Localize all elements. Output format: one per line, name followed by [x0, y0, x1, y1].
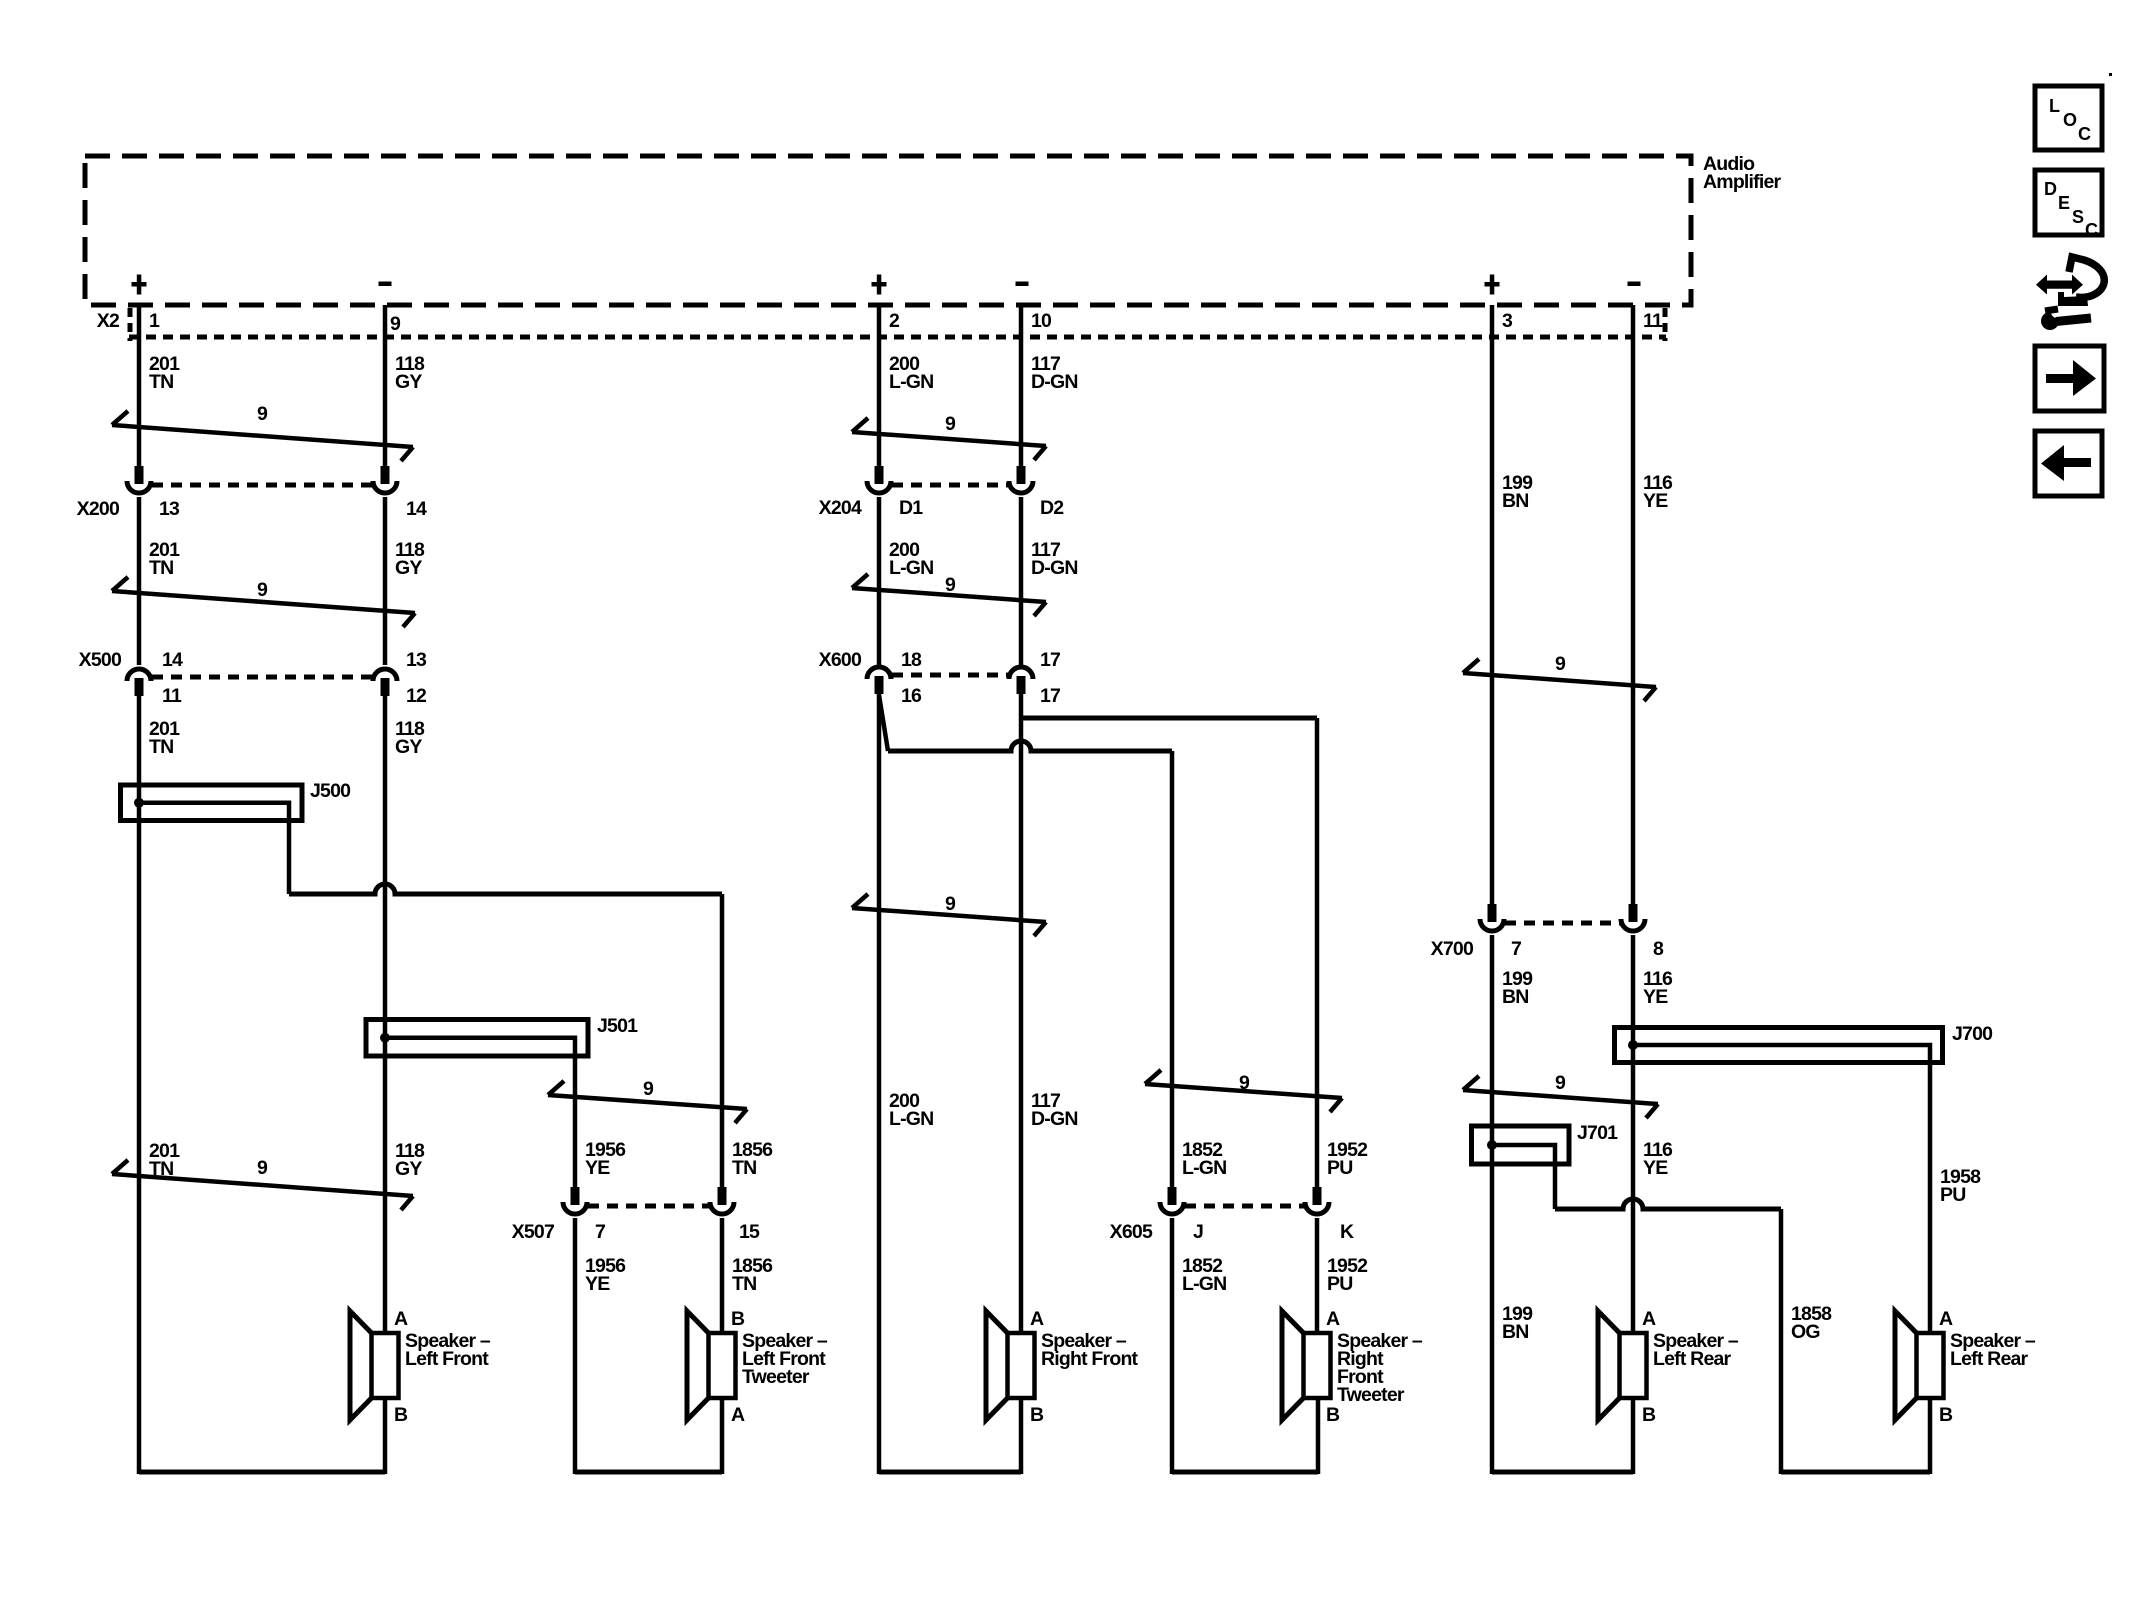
- svg-text:9: 9: [1555, 653, 1566, 675]
- svg-text:L-GN: L-GN: [889, 371, 933, 393]
- svg-text:15: 15: [739, 1221, 760, 1243]
- harness crossing arrow 9 (c1 upper): [112, 425, 413, 447]
- right-front speaker bottom loop wire: [879, 1470, 1021, 1475]
- double arrow of service icon: [2036, 275, 2083, 295]
- svg-text:L-GN: L-GN: [1182, 1273, 1226, 1295]
- wire 199 BN from X700 to J701 and speaker loop: [1490, 935, 1495, 1474]
- connector X204 terminal D2: [1017, 466, 1026, 484]
- svg-text:A: A: [1326, 1308, 1340, 1330]
- connector X600 dashed link: [892, 673, 1008, 678]
- svg-text:1: 1: [149, 310, 160, 332]
- svg-text:K: K: [1340, 1221, 1354, 1243]
- svg-text:X200: X200: [77, 498, 120, 520]
- svg-text:B: B: [394, 1404, 408, 1426]
- splice J500: [121, 785, 303, 821]
- svg-text:D-GN: D-GN: [1031, 557, 1078, 579]
- svg-text:B: B: [1326, 1404, 1340, 1426]
- connector X500 dashed link: [152, 675, 372, 680]
- svg-text:YE: YE: [1643, 490, 1668, 512]
- wire 199 BN from X2 pin3 to X700 pin7: [1490, 305, 1495, 905]
- connector X605 dashed link: [1185, 1204, 1304, 1209]
- forward arrow icon box: [2035, 346, 2104, 411]
- svg-text:2: 2: [889, 310, 900, 332]
- vehicle outline of service icon: [2069, 257, 2104, 298]
- plus terminal at x=139: [137, 275, 142, 295]
- connector X500 terminal 13/12: [373, 669, 397, 681]
- minus terminal at x=1022: [1016, 282, 1029, 287]
- back arrow icon box: [2035, 431, 2102, 496]
- wire 1852 L-GN from X605 to tweeter loop: [1170, 1218, 1175, 1474]
- svg-text:9: 9: [257, 403, 268, 425]
- svg-text:X204: X204: [819, 497, 862, 519]
- svg-text:TN: TN: [732, 1273, 756, 1295]
- left-rear speaker bottom loop wire: [1492, 1470, 1633, 1475]
- wire 200 L-GN from X2 pin2 to X204 pinD1: [877, 305, 882, 467]
- svg-text:L-GN: L-GN: [889, 557, 933, 579]
- wire 1856 TN vertical down to X507 pin15: [720, 894, 725, 1188]
- svg-text:Tweeter: Tweeter: [742, 1366, 810, 1388]
- svg-text:L-GN: L-GN: [889, 1108, 933, 1130]
- wire from splice J500 exit down to horizontal run: [287, 820, 292, 894]
- svg-text:YE: YE: [585, 1273, 610, 1295]
- svg-text:L-GN: L-GN: [1182, 1157, 1226, 1179]
- wire 116 YE from X2 pin11 to X700 pin8: [1631, 305, 1636, 905]
- wire 117 D-GN from X600 pin17 down to right-front speaker A: [1019, 693, 1024, 1333]
- connector X2 left tick: [128, 308, 133, 341]
- wire 1952 PU horizontal run to X605 pinK: [1023, 716, 1317, 721]
- wire 118 GY from X2 pin9 to X200 pin14: [383, 305, 388, 467]
- speaker - second left rear symbol: [1895, 1311, 1917, 1420]
- wire 1956 YE from X507 to tweeter loop: [573, 1218, 578, 1474]
- wire 201 TN from X2 pin1 to X200 pin13: [137, 305, 142, 467]
- svg-text:YE: YE: [1643, 1157, 1668, 1179]
- wire 117 D-GN from X2 pin10 to X204 pinD2: [1019, 305, 1024, 467]
- svg-text:BN: BN: [1502, 986, 1529, 1008]
- wire 118 GY from X200 to X500: [383, 497, 388, 665]
- harness crossing arrow 9 (tweeter2): [1145, 1084, 1342, 1098]
- svg-text:J700: J700: [1952, 1023, 1993, 1045]
- wire 200 L-GN branch diagonal from pin16: [879, 695, 888, 751]
- svg-text:TN: TN: [732, 1157, 756, 1179]
- connector X507 dashed link: [588, 1204, 709, 1209]
- speaker - right front tweeter symbol: [1282, 1311, 1304, 1420]
- wire 1958 PU from J700 down to second left-rear speaker A: [1928, 1063, 1933, 1333]
- wire 1856 TN from splice J500 to X507 pin15 (horizontal run): [289, 884, 722, 894]
- svg-text:Left Rear: Left Rear: [1950, 1348, 2029, 1370]
- svg-text:GY: GY: [395, 736, 422, 758]
- connector X2 right tick: [1663, 308, 1668, 341]
- svg-text:C: C: [2078, 124, 2091, 144]
- plus terminal at x=879: [877, 275, 882, 295]
- connector X200 dashed link: [152, 483, 372, 488]
- connector X2 dotted strip: [129, 335, 1666, 340]
- svg-text:L: L: [2049, 96, 2060, 116]
- connector X200 terminal 13: [135, 466, 144, 484]
- svg-text:7: 7: [595, 1221, 605, 1243]
- svg-text:D2: D2: [1040, 497, 1064, 519]
- svg-text:B: B: [1030, 1404, 1044, 1426]
- svg-text:17: 17: [1040, 649, 1060, 671]
- left-front speaker bottom loop wire: [139, 1470, 385, 1475]
- wire 1952 PU from X605 to right-front tweeter pin A: [1315, 1218, 1320, 1333]
- svg-text:C: C: [2085, 220, 2098, 240]
- harness crossing arrow 9 (c1 bottom): [112, 1174, 413, 1196]
- left-front tweeter bottom loop wire: [575, 1470, 722, 1475]
- harness crossing arrow 9 (c1 lower): [112, 591, 415, 613]
- harness crossing arrow 9 (c2 bottom): [852, 908, 1046, 922]
- svg-text:X500: X500: [79, 649, 122, 671]
- svg-text:J501: J501: [597, 1015, 638, 1037]
- svg-text:GY: GY: [395, 557, 422, 579]
- svg-text:OG: OG: [1791, 1321, 1820, 1343]
- svg-text:E: E: [2058, 193, 2070, 213]
- connector X700 terminal 8: [1629, 904, 1638, 922]
- svg-text:X507: X507: [512, 1221, 554, 1243]
- svg-text:BN: BN: [1502, 1321, 1529, 1343]
- svg-text:10: 10: [1031, 310, 1052, 332]
- page speck dot: [2109, 73, 2112, 76]
- right-front speaker pin B riser: [1019, 1398, 1024, 1474]
- svg-text:BN: BN: [1502, 490, 1529, 512]
- wire 200 L-GN from X600 pin16 down to right-front speaker loop: [877, 693, 882, 1474]
- svg-text:PU: PU: [1327, 1157, 1353, 1179]
- splice J701: [1472, 1126, 1570, 1164]
- svg-text:7: 7: [1511, 938, 1521, 960]
- svg-text:O: O: [2063, 110, 2077, 130]
- wire 1858 OG from J701 vertical drop: [1553, 1164, 1558, 1209]
- svg-text:9: 9: [945, 574, 956, 596]
- svg-text:13: 13: [159, 498, 180, 520]
- svg-text:9: 9: [945, 893, 956, 915]
- svg-text:S: S: [2072, 207, 2084, 227]
- svg-text:A: A: [394, 1308, 408, 1330]
- DESC icon box: [2035, 170, 2102, 235]
- speaker - left front symbol: [350, 1311, 372, 1420]
- harness crossing arrow 9 (c3 lower): [1463, 1090, 1658, 1104]
- svg-text:YE: YE: [1643, 986, 1668, 1008]
- wire 1858 OG down to second left-rear speaker loop: [1779, 1209, 1784, 1474]
- connector X600 terminal 17/17: [1009, 667, 1033, 679]
- svg-text:TN: TN: [149, 736, 173, 758]
- wire 201 TN from X500 pin11 down to left-front speaker loop: [137, 695, 142, 1474]
- svg-text:X2: X2: [97, 310, 120, 332]
- svg-text:Amplifier: Amplifier: [1703, 171, 1782, 193]
- wire 1956 YE from J501 to X507 pin7: [573, 1056, 578, 1188]
- svg-text:Tweeter: Tweeter: [1337, 1384, 1405, 1406]
- svg-text:TN: TN: [149, 371, 173, 393]
- splice J700: [1615, 1028, 1943, 1063]
- svg-text:14: 14: [406, 498, 427, 520]
- harness crossing arrow 9 (tweeter1): [548, 1095, 747, 1109]
- svg-text:9: 9: [643, 1078, 654, 1100]
- connector X507 terminal 7: [571, 1187, 580, 1205]
- wire 200 L-GN from X204 to X600: [877, 497, 882, 665]
- splice J501: [366, 1020, 588, 1057]
- connector X500 terminal 14/11: [127, 669, 151, 681]
- svg-text:9: 9: [1239, 1072, 1250, 1094]
- connector X605 terminal K: [1313, 1187, 1322, 1205]
- connector X507 terminal 15: [718, 1187, 727, 1205]
- svg-text:J: J: [1193, 1221, 1203, 1243]
- connector X200 terminal 14: [381, 466, 390, 484]
- svg-text:PU: PU: [1940, 1184, 1966, 1206]
- minus terminal at x=1634: [1628, 282, 1641, 287]
- left-rear speaker pin B riser: [1631, 1398, 1636, 1474]
- svg-text:11: 11: [162, 685, 182, 707]
- connector X605 terminal J: [1168, 1187, 1177, 1205]
- svg-text:B: B: [1642, 1404, 1656, 1426]
- wire 117 D-GN from X204 to X600: [1019, 497, 1024, 665]
- svg-text:16: 16: [901, 685, 922, 707]
- connector X204 terminal D1: [875, 466, 884, 484]
- wrench of service icon: [2041, 312, 2059, 330]
- svg-text:14: 14: [162, 649, 183, 671]
- svg-text:11: 11: [1643, 310, 1663, 332]
- wire 1852 L-GN vertical down to X605 pinJ: [1170, 751, 1175, 1188]
- second left-rear speaker bottom loop wire: [1781, 1470, 1930, 1475]
- wire 116 YE from X700 through J700 to left-rear speaker A: [1631, 935, 1636, 1333]
- svg-text:9: 9: [945, 413, 956, 435]
- svg-text:J701: J701: [1577, 1122, 1618, 1144]
- harness crossing arrow 9 (c2 upper): [852, 432, 1046, 446]
- wire 118 GY from X500 pin12 to J501 and speaker A: [383, 695, 388, 1333]
- svg-text:18: 18: [901, 649, 922, 671]
- connector X204 dashed link: [892, 483, 1008, 488]
- svg-text:D: D: [2044, 179, 2057, 199]
- plus terminal at x=1492: [1490, 275, 1495, 295]
- connector X700 terminal 7: [1488, 904, 1497, 922]
- svg-text:YE: YE: [585, 1157, 610, 1179]
- svg-text:9: 9: [257, 579, 268, 601]
- left-front tweeter pin A riser: [720, 1398, 725, 1474]
- svg-text:3: 3: [1502, 310, 1513, 332]
- svg-text:B: B: [731, 1308, 745, 1330]
- wire 1856 TN from X507 to tweeter pin B: [720, 1218, 725, 1333]
- speaker - left rear symbol: [1598, 1311, 1620, 1420]
- svg-text:A: A: [1030, 1308, 1044, 1330]
- right-front tweeter bottom loop wire: [1172, 1470, 1318, 1475]
- right-front tweeter pin B riser: [1316, 1398, 1321, 1474]
- svg-text:D-GN: D-GN: [1031, 1108, 1078, 1130]
- wire 1858 OG horizontal run: [1555, 1199, 1781, 1209]
- svg-text:B: B: [1939, 1404, 1953, 1426]
- svg-text:Right Front: Right Front: [1041, 1348, 1139, 1370]
- wire 1852 L-GN horizontal run to X605 pinJ: [888, 741, 1172, 751]
- svg-text:X700: X700: [1431, 938, 1474, 960]
- svg-text:D-GN: D-GN: [1031, 371, 1078, 393]
- svg-text:J500: J500: [310, 780, 351, 802]
- svg-text:Left Front: Left Front: [405, 1348, 489, 1370]
- svg-text:A: A: [1939, 1308, 1953, 1330]
- svg-text:A: A: [1642, 1308, 1656, 1330]
- svg-text:X600: X600: [819, 649, 862, 671]
- svg-text:GY: GY: [395, 371, 422, 393]
- minus terminal at x=385: [379, 282, 392, 287]
- svg-text:9: 9: [1555, 1072, 1566, 1094]
- svg-text:A: A: [731, 1404, 745, 1426]
- left-front speaker pin B riser: [383, 1398, 388, 1474]
- svg-text:Left Rear: Left Rear: [1653, 1348, 1732, 1370]
- svg-text:TN: TN: [149, 557, 173, 579]
- speaker - left front tweeter symbol: [687, 1311, 709, 1420]
- svg-text:GY: GY: [395, 1158, 422, 1180]
- harness crossing arrow 9 (c3 upper): [1463, 673, 1656, 687]
- LOC icon box: [2035, 86, 2102, 150]
- svg-text:PU: PU: [1327, 1273, 1353, 1295]
- wire 1952 PU vertical down to X605 pinK: [1315, 718, 1320, 1188]
- connector X700 dashed link: [1505, 921, 1620, 926]
- svg-text:9: 9: [257, 1157, 268, 1179]
- connector X600 terminal 18/16: [867, 667, 891, 679]
- speaker - right front symbol: [986, 1311, 1008, 1420]
- audio amplifier dashed box: [85, 156, 1691, 305]
- wire 201 TN from X200 to X500: [137, 497, 142, 665]
- second left-rear speaker pin B riser: [1928, 1398, 1933, 1474]
- svg-text:13: 13: [406, 649, 427, 671]
- svg-text:17: 17: [1040, 685, 1060, 707]
- svg-text:D1: D1: [899, 497, 923, 519]
- harness crossing arrow 9 (c2 lower): [852, 588, 1046, 602]
- svg-text:8: 8: [1653, 938, 1664, 960]
- svg-text:X605: X605: [1110, 1221, 1153, 1243]
- svg-text:12: 12: [406, 685, 427, 707]
- svg-text:9: 9: [390, 313, 401, 335]
